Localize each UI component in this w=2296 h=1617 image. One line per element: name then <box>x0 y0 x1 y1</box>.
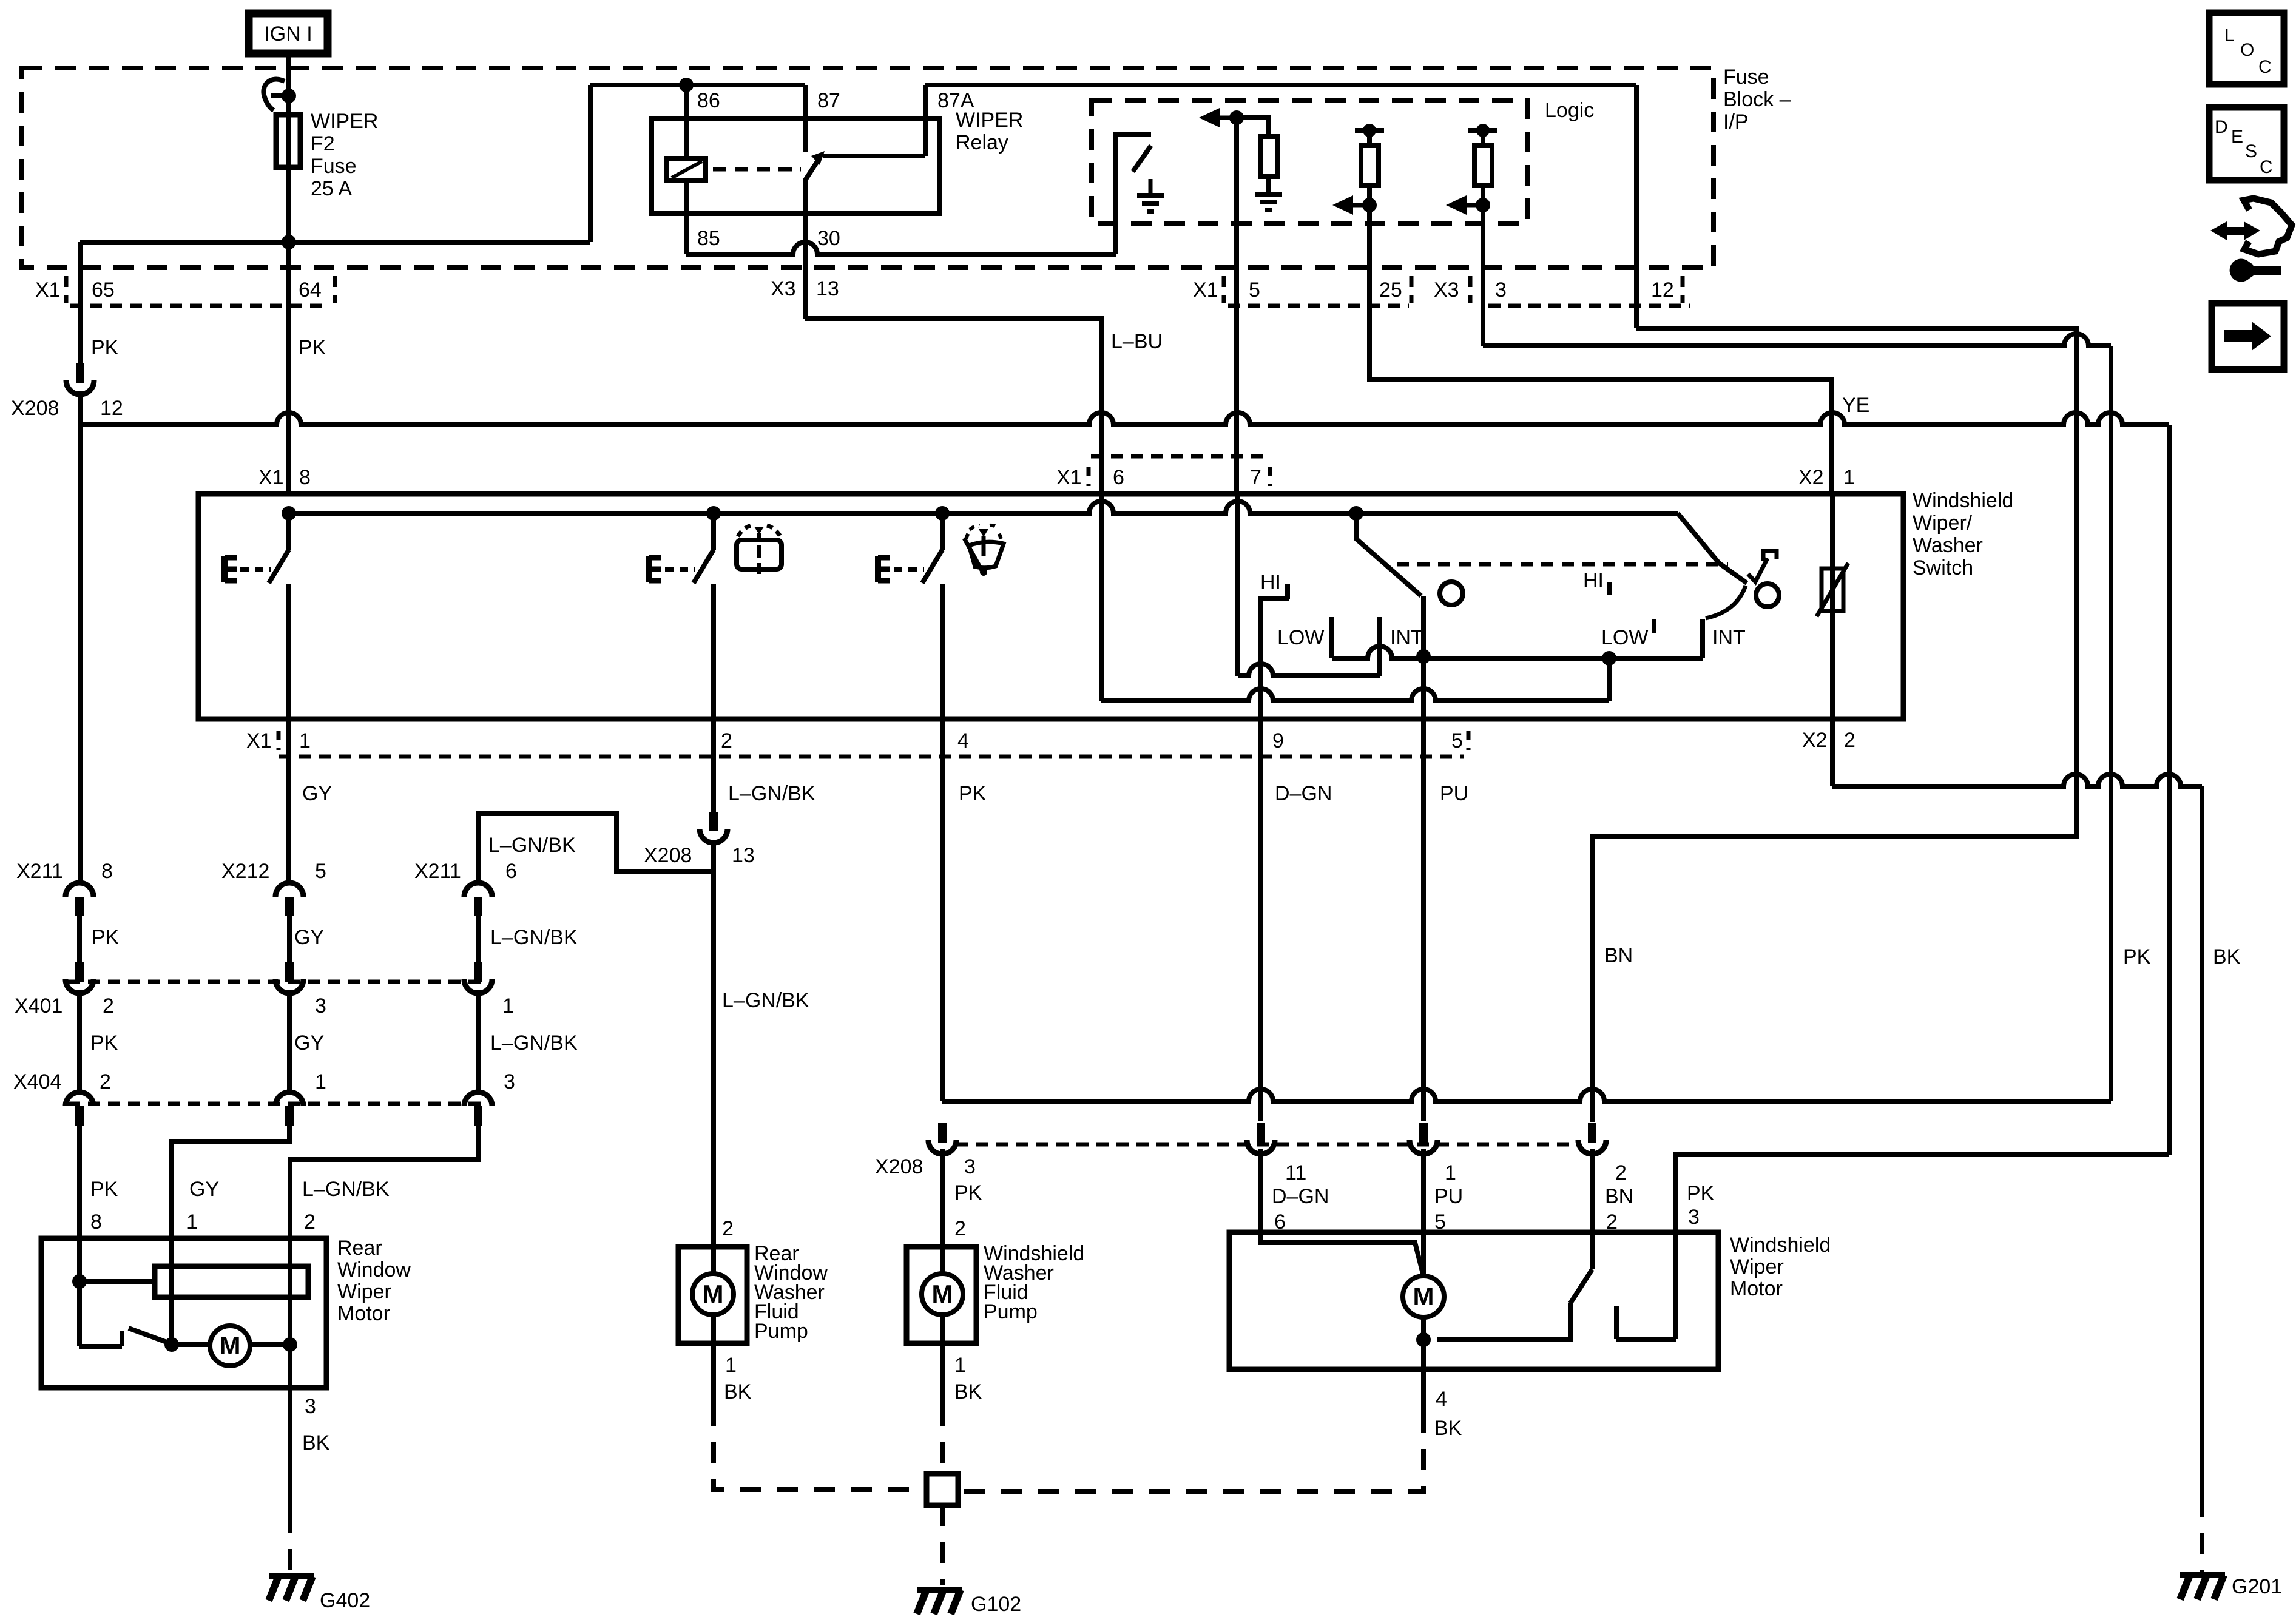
svg-text:I/P: I/P <box>1723 110 1749 133</box>
wire X3-3 PK run to right <box>1481 205 1485 346</box>
svg-text:GY: GY <box>189 1178 219 1201</box>
svg-text:Switch: Switch <box>1913 556 1973 579</box>
svg-text:L–GN/BK: L–GN/BK <box>488 834 576 857</box>
svg-text:YE: YE <box>1842 394 1869 417</box>
svg-text:13: 13 <box>732 844 755 867</box>
motor M rear <box>210 1326 250 1366</box>
svg-text:Wiper: Wiper <box>337 1280 391 1303</box>
wire PK to ws pump <box>940 1149 945 1247</box>
svg-text:L–BU: L–BU <box>1111 330 1163 353</box>
wire coil to 85 <box>684 181 689 254</box>
node R3 out <box>1476 198 1490 212</box>
wire tap to resistor <box>79 1279 155 1284</box>
svg-text:3: 3 <box>315 994 326 1018</box>
svg-text:M: M <box>1413 1282 1434 1311</box>
wire GY pin7 column <box>1235 494 1240 676</box>
rear window washer fluid pump box <box>678 1247 747 1343</box>
svg-text:INT: INT <box>1390 626 1423 649</box>
svg-text:E: E <box>2231 127 2243 147</box>
wire pump BK <box>711 1343 716 1405</box>
svg-text:X211: X211 <box>414 860 461 883</box>
wire BK right column <box>2200 786 2204 1496</box>
svg-text:1: 1 <box>186 1210 198 1234</box>
svg-text:M: M <box>932 1280 953 1308</box>
chassis ground logic switch <box>1137 179 1164 211</box>
node logic GY tap <box>1229 110 1244 125</box>
connector X208-3 <box>928 1123 956 1154</box>
wire PK segment2 <box>77 990 82 1091</box>
wire bus right riser <box>2167 425 2172 1155</box>
wire INT bus LOW cup line <box>1332 646 1703 658</box>
svg-text:INT: INT <box>1712 626 1746 649</box>
wire switch3 to pin 4 <box>940 584 945 719</box>
svg-text:X208: X208 <box>644 844 692 867</box>
wire X208-13 zigzag to X211-6 <box>478 814 714 882</box>
wire L-GN/BK to pump <box>711 840 716 1247</box>
wire X3-13 to L-BU riser <box>805 319 1102 494</box>
mechanical link dashed <box>1397 562 1728 567</box>
svg-text:9: 9 <box>1272 729 1284 752</box>
wire IGN I to ignition switch <box>286 53 291 96</box>
wire pin 12 column <box>1634 85 1639 328</box>
wire logic to resistor R1 <box>1237 118 1269 137</box>
wire PK crossover to right <box>942 1089 2111 1101</box>
node ignition feed <box>282 89 296 103</box>
ground G102 <box>917 1590 962 1614</box>
svg-text:Rear: Rear <box>337 1237 382 1260</box>
svg-text:PU: PU <box>1440 782 1468 805</box>
connector X401-2 <box>66 962 93 993</box>
wire BK dashed to G201 <box>2200 1496 2204 1572</box>
connector X401-1 <box>464 962 492 993</box>
svg-text:85: 85 <box>697 227 720 250</box>
wire M to BK <box>250 1342 290 1347</box>
node left mode blade tap <box>1349 506 1363 521</box>
svg-text:1: 1 <box>725 1354 737 1377</box>
logic output arrow X3-3 <box>1465 203 1483 208</box>
connector X404-1 <box>275 1092 303 1126</box>
svg-text:11: 11 <box>1285 1161 1306 1184</box>
wire 87A to pin 12 <box>925 83 1636 87</box>
svg-text:30: 30 <box>817 227 840 250</box>
svg-text:L–GN/BK: L–GN/BK <box>728 782 815 805</box>
icon LOC box <box>2209 13 2284 84</box>
wire 25 column to YE riser <box>1369 205 1832 494</box>
wire GY through resistor <box>169 1238 174 1345</box>
svg-text:C: C <box>2258 57 2272 77</box>
wire 86 to coil <box>684 85 689 158</box>
wire L-GN/BK segment <box>476 916 481 962</box>
svg-text:6: 6 <box>505 860 517 883</box>
node R2 out <box>1362 198 1377 212</box>
svg-text:LOW: LOW <box>1601 626 1648 649</box>
svg-text:2: 2 <box>103 994 114 1018</box>
wire X2-2 down <box>1830 719 1835 786</box>
svg-text:3: 3 <box>1688 1206 1700 1229</box>
wire switch2 to pin 2 <box>711 584 716 719</box>
svg-text:G201: G201 <box>2232 1575 2282 1598</box>
svg-text:6: 6 <box>1113 466 1124 489</box>
wire switch interior bus <box>289 501 1678 513</box>
svg-text:X208: X208 <box>11 397 59 420</box>
svg-text:D–GN: D–GN <box>1272 1185 1329 1208</box>
svg-text:5: 5 <box>1451 729 1463 752</box>
logic output arrow X1-5 <box>1218 116 1237 120</box>
logic box dashed outline <box>1092 100 1527 223</box>
wire INT to GY pin7 <box>1238 664 1380 676</box>
wire pump stub bottom <box>711 1315 716 1343</box>
ground splice square <box>927 1474 958 1505</box>
svg-text:L–GN/BK: L–GN/BK <box>490 926 578 949</box>
wire switch1 upper <box>286 513 291 550</box>
svg-text:Motor: Motor <box>1730 1277 1783 1300</box>
resistor R3 top bar <box>1468 128 1497 133</box>
svg-text:PK: PK <box>1687 1182 1715 1205</box>
rear window wiper motor box <box>41 1238 326 1388</box>
wire PK inside motor <box>77 1238 82 1346</box>
svg-text:86: 86 <box>697 89 720 112</box>
svg-text:X3: X3 <box>1434 279 1459 302</box>
connector X211-6 <box>464 883 492 916</box>
wire relay top feed 86/87 <box>590 83 805 87</box>
park switch rear motor <box>79 1328 170 1346</box>
switch S3 windshield washer <box>878 550 942 583</box>
wire X1-65 PK to X208-12 <box>78 242 83 363</box>
motor M rear pump <box>692 1274 734 1315</box>
wire 87A contact stub <box>923 85 928 156</box>
svg-text:65: 65 <box>92 279 115 302</box>
svg-text:4: 4 <box>957 729 969 752</box>
wire PK feed inside <box>1673 1232 1678 1339</box>
left INT upright <box>1377 617 1382 676</box>
right blade travel arc <box>1706 586 1746 618</box>
svg-text:1: 1 <box>299 729 311 752</box>
svg-text:F2: F2 <box>311 132 335 155</box>
svg-text:O: O <box>2240 40 2254 60</box>
motor M windshield <box>1403 1276 1444 1317</box>
wire BN to motor <box>1590 1149 1595 1269</box>
svg-text:8: 8 <box>299 466 311 489</box>
svg-text:1: 1 <box>954 1354 966 1377</box>
wire BK-4 below motor <box>1421 1369 1426 1412</box>
ignition switch symbol <box>263 79 289 110</box>
relay coil link dashed <box>713 167 801 172</box>
svg-text:12: 12 <box>100 397 123 420</box>
svg-text:3: 3 <box>1495 279 1507 302</box>
LOW cup left upright <box>1329 617 1334 658</box>
wire L-GN/BK jog to motor <box>290 1126 478 1238</box>
node fuse output <box>282 235 296 249</box>
svg-text:3: 3 <box>504 1070 515 1093</box>
svg-text:M: M <box>703 1280 724 1308</box>
wire 87 contact stub <box>803 85 808 152</box>
connector X208-11 <box>1247 1123 1275 1154</box>
svg-text:BK: BK <box>2213 945 2241 968</box>
connector IGN I box <box>249 13 328 53</box>
wire PU to motor M <box>1421 1149 1426 1276</box>
svg-text:Fuse: Fuse <box>311 155 357 178</box>
svg-text:X1: X1 <box>246 729 272 752</box>
svg-text:BK: BK <box>1434 1417 1462 1440</box>
wire pin5 PU down <box>1421 719 1426 1121</box>
relay box WIPER Relay <box>652 118 940 214</box>
svg-text:13: 13 <box>816 277 839 300</box>
wire switch3 upper <box>940 513 945 550</box>
wire blade to 87A contact <box>823 154 925 158</box>
svg-text:X1: X1 <box>35 279 61 302</box>
node rear motor junction <box>164 1337 179 1352</box>
wire BK-4 dashed <box>958 1412 1423 1491</box>
wire M bottom <box>1421 1317 1426 1369</box>
svg-text:2: 2 <box>1615 1161 1627 1184</box>
windshield wiper motor box <box>1229 1232 1718 1369</box>
wire to motor M <box>172 1342 210 1347</box>
park switch blade ws motor <box>1437 1269 1592 1339</box>
wire pin4 PK down <box>940 719 945 1101</box>
X404 dashed row <box>68 1102 485 1106</box>
connector X212-5 <box>275 883 303 916</box>
wire YE X2-1 column <box>1830 494 1835 719</box>
logic switch element <box>1116 135 1151 254</box>
svg-text:D–GN: D–GN <box>1275 782 1332 805</box>
svg-text:Washer: Washer <box>1913 534 1983 557</box>
svg-text:Pump: Pump <box>754 1320 808 1343</box>
svg-text:X401: X401 <box>15 994 62 1018</box>
resistor R1 <box>1260 137 1278 177</box>
svg-text:C: C <box>2260 157 2273 177</box>
icon windshield washer <box>964 525 1004 576</box>
svg-text:Wiper: Wiper <box>1730 1255 1784 1278</box>
wire pump BK dashed <box>714 1405 927 1490</box>
svg-text:PK: PK <box>90 1031 118 1055</box>
svg-text:Wiper/: Wiper/ <box>1913 511 1973 535</box>
svg-text:BK: BK <box>724 1380 752 1403</box>
wire ws pump stub top <box>940 1247 945 1274</box>
wire blade contact column <box>1421 596 1426 657</box>
LOW contact right tick <box>1652 619 1656 633</box>
svg-text:Block –: Block – <box>1723 88 1791 111</box>
svg-text:X208: X208 <box>875 1155 923 1178</box>
svg-text:2: 2 <box>721 729 732 752</box>
connector row X1 5/25 dashes <box>1222 276 1226 303</box>
chassis ground R1 <box>1255 178 1282 210</box>
node motor bottom junction <box>1416 1332 1431 1347</box>
svg-text:PK: PK <box>954 1181 982 1204</box>
connector X208-1 <box>1410 1123 1437 1154</box>
svg-text:BK: BK <box>302 1431 330 1454</box>
wire switch1 to pin X1-1 <box>286 584 291 719</box>
svg-text:X1: X1 <box>258 466 284 489</box>
connector X404-2 <box>66 1092 93 1126</box>
wire pin6 to INT junction <box>1101 689 1609 701</box>
switch S1 rear wiper <box>225 550 289 583</box>
wire PK to motor <box>77 1126 82 1238</box>
wire ws pump stub bottom <box>940 1315 945 1343</box>
node PK resistor tap <box>72 1274 87 1289</box>
connector row X1 65/64 dashes <box>64 276 69 303</box>
wire pin2 L-GN/BK down <box>711 719 716 812</box>
svg-text:X2: X2 <box>1798 466 1824 489</box>
wire L-GN/BK segment2 <box>476 990 481 1091</box>
svg-text:BN: BN <box>1605 1185 1633 1208</box>
connector X208-13 <box>700 812 728 843</box>
svg-text:12: 12 <box>1651 279 1674 302</box>
wire right INT upright <box>1700 619 1705 658</box>
svg-text:GY: GY <box>294 1031 324 1055</box>
svg-text:L: L <box>2224 25 2235 46</box>
wire riser to relay feed <box>588 85 593 242</box>
svg-text:1: 1 <box>1445 1161 1456 1184</box>
svg-text:4: 4 <box>1436 1388 1447 1411</box>
svg-text:1: 1 <box>315 1070 326 1093</box>
wire 12 to BN riser <box>1592 328 2076 1122</box>
wire D-GN jog inside <box>1261 1232 1423 1276</box>
wire switch2 upper <box>711 513 716 550</box>
svg-text:LOW: LOW <box>1277 626 1324 649</box>
wire pump stub top <box>711 1247 716 1274</box>
wire R3 top <box>1481 130 1485 146</box>
wire BK dashed to G402 <box>288 1512 292 1574</box>
fuse block I/P dashed outline <box>22 68 1714 268</box>
svg-text:PK: PK <box>92 926 120 949</box>
svg-text:87: 87 <box>817 89 840 112</box>
svg-text:5: 5 <box>1249 279 1260 302</box>
svg-text:3: 3 <box>964 1155 976 1178</box>
ground G201 <box>2180 1575 2225 1599</box>
svg-text:BN: BN <box>1604 944 1633 967</box>
ground G402 <box>269 1576 314 1601</box>
connector X208-12 <box>66 363 94 394</box>
svg-text:8: 8 <box>101 860 113 883</box>
icon rear window washer <box>737 525 782 574</box>
svg-text:L–GN/BK: L–GN/BK <box>490 1031 578 1055</box>
svg-text:2: 2 <box>304 1210 316 1234</box>
wire PK right riser <box>2109 346 2113 1101</box>
svg-text:25: 25 <box>1379 279 1402 302</box>
svg-text:WIPER: WIPER <box>956 109 1023 132</box>
node left INT junction <box>1416 649 1431 664</box>
svg-text:X3: X3 <box>771 277 796 300</box>
svg-text:Windshield: Windshield <box>1730 1234 1831 1257</box>
windshield washer fluid pump box <box>907 1247 976 1343</box>
icon forward arrow box <box>2212 303 2284 370</box>
wire GY segment2 <box>287 990 292 1091</box>
svg-text:PU: PU <box>1434 1185 1463 1208</box>
svg-text:X212: X212 <box>221 860 269 883</box>
connector X211-8 <box>66 883 93 916</box>
wire ws pump BK dashed <box>940 1405 945 1474</box>
wire GY column X1-5 <box>1234 118 1239 494</box>
svg-text:2: 2 <box>100 1070 111 1093</box>
node mid INT junction <box>1602 651 1616 666</box>
node S3 tap <box>935 506 950 521</box>
svg-text:Pump: Pump <box>984 1300 1038 1323</box>
wire BK down <box>288 1345 292 1512</box>
svg-text:PK: PK <box>90 1178 118 1201</box>
wire X2-2 BK run <box>1832 774 2202 786</box>
svg-text:HI: HI <box>1260 571 1281 594</box>
svg-text:Logic: Logic <box>1545 99 1594 122</box>
wire R2 bottom <box>1367 186 1372 205</box>
wire L-GN/BK through resistor <box>288 1238 292 1345</box>
svg-text:X1: X1 <box>1193 279 1218 302</box>
svg-text:2: 2 <box>954 1217 966 1240</box>
wire 30 column <box>803 179 808 319</box>
node BK junction <box>283 1337 297 1352</box>
X208 row dashed line <box>956 1143 1578 1147</box>
resistor R2 top bar <box>1355 128 1384 133</box>
svg-text:WIPER: WIPER <box>311 110 378 133</box>
connector X208-2 <box>1578 1123 1606 1154</box>
svg-text:3: 3 <box>305 1395 316 1418</box>
node pin8 bus <box>282 506 296 521</box>
svg-text:X404: X404 <box>13 1070 61 1093</box>
svg-text:Relay: Relay <box>956 131 1008 154</box>
wire GY pin1 column <box>286 719 291 882</box>
wire L-BU pin6 column <box>1099 494 1104 701</box>
wire fuse output rail <box>80 240 590 245</box>
wire bus to wiper motor PK-3 <box>1676 1155 2169 1232</box>
svg-text:L–GN/BK: L–GN/BK <box>302 1178 390 1201</box>
park contact circle right <box>1756 584 1779 607</box>
wire R3 bottom <box>1481 186 1485 205</box>
wire GY jog to motor <box>172 1126 289 1238</box>
X401 dashed row <box>68 980 485 984</box>
node 86 tap <box>679 78 694 92</box>
svg-text:1: 1 <box>502 994 514 1018</box>
svg-text:L–GN/BK: L–GN/BK <box>722 989 809 1012</box>
HI contact right tick <box>1607 582 1612 595</box>
motor M ws pump <box>922 1274 963 1315</box>
resistor R2 <box>1361 146 1379 186</box>
svg-text:1: 1 <box>1843 466 1855 489</box>
svg-text:Windshield: Windshield <box>1913 489 2013 512</box>
switch bottom pin row dashes <box>277 731 281 750</box>
switch S2 rear washer <box>649 550 714 583</box>
right blade hook contact <box>1748 551 1777 582</box>
connector X401-3 <box>275 962 303 993</box>
resistor R3 <box>1474 146 1492 186</box>
svg-text:PK: PK <box>299 336 326 359</box>
wire ws pump BK <box>940 1343 945 1405</box>
wire GY segment <box>287 916 292 962</box>
icon DESC box <box>2209 107 2284 180</box>
motor resistor <box>155 1266 308 1297</box>
relay blade <box>805 160 819 180</box>
park switch contact ws motor <box>1616 1306 1676 1339</box>
svg-text:G402: G402 <box>320 1589 370 1612</box>
svg-text:GY: GY <box>302 782 332 805</box>
wire riser to INT junction <box>1607 658 1612 701</box>
wire switch to fuse <box>286 96 291 242</box>
right mode blade <box>1678 513 1747 583</box>
wire D-GN to motor <box>1258 1149 1263 1232</box>
wire X1-64 PK to switch pin 8 <box>286 242 291 494</box>
relay coil <box>667 158 706 181</box>
park contact circle left <box>1440 582 1463 605</box>
node S2 tap <box>706 506 721 521</box>
svg-text:G102: G102 <box>971 1593 1021 1616</box>
svg-text:X211: X211 <box>16 860 63 883</box>
HI contact left <box>1261 584 1289 719</box>
icon part locator with wrench <box>2210 198 2292 282</box>
wire 85 to logic switch <box>686 242 1116 254</box>
svg-text:BK: BK <box>954 1380 982 1403</box>
svg-text:25 A: 25 A <box>311 177 352 200</box>
windshield wiper washer switch box <box>198 494 1903 719</box>
variable resistor delay <box>1822 569 1843 611</box>
left mode switch blade <box>1356 513 1421 596</box>
